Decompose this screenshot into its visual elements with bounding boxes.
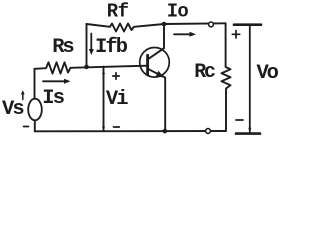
svg-text:Vs: Vs xyxy=(2,98,24,121)
svg-text:Is: Is xyxy=(42,87,64,110)
svg-text:Vi: Vi xyxy=(106,88,128,111)
svg-text:Vo: Vo xyxy=(257,62,279,85)
svg-text:Rs: Rs xyxy=(52,36,74,59)
svg-text:Rc: Rc xyxy=(194,61,215,84)
svg-text:Ifb: Ifb xyxy=(95,36,128,59)
svg-text:Io: Io xyxy=(167,1,189,23)
svg-text:Rf: Rf xyxy=(107,1,129,23)
